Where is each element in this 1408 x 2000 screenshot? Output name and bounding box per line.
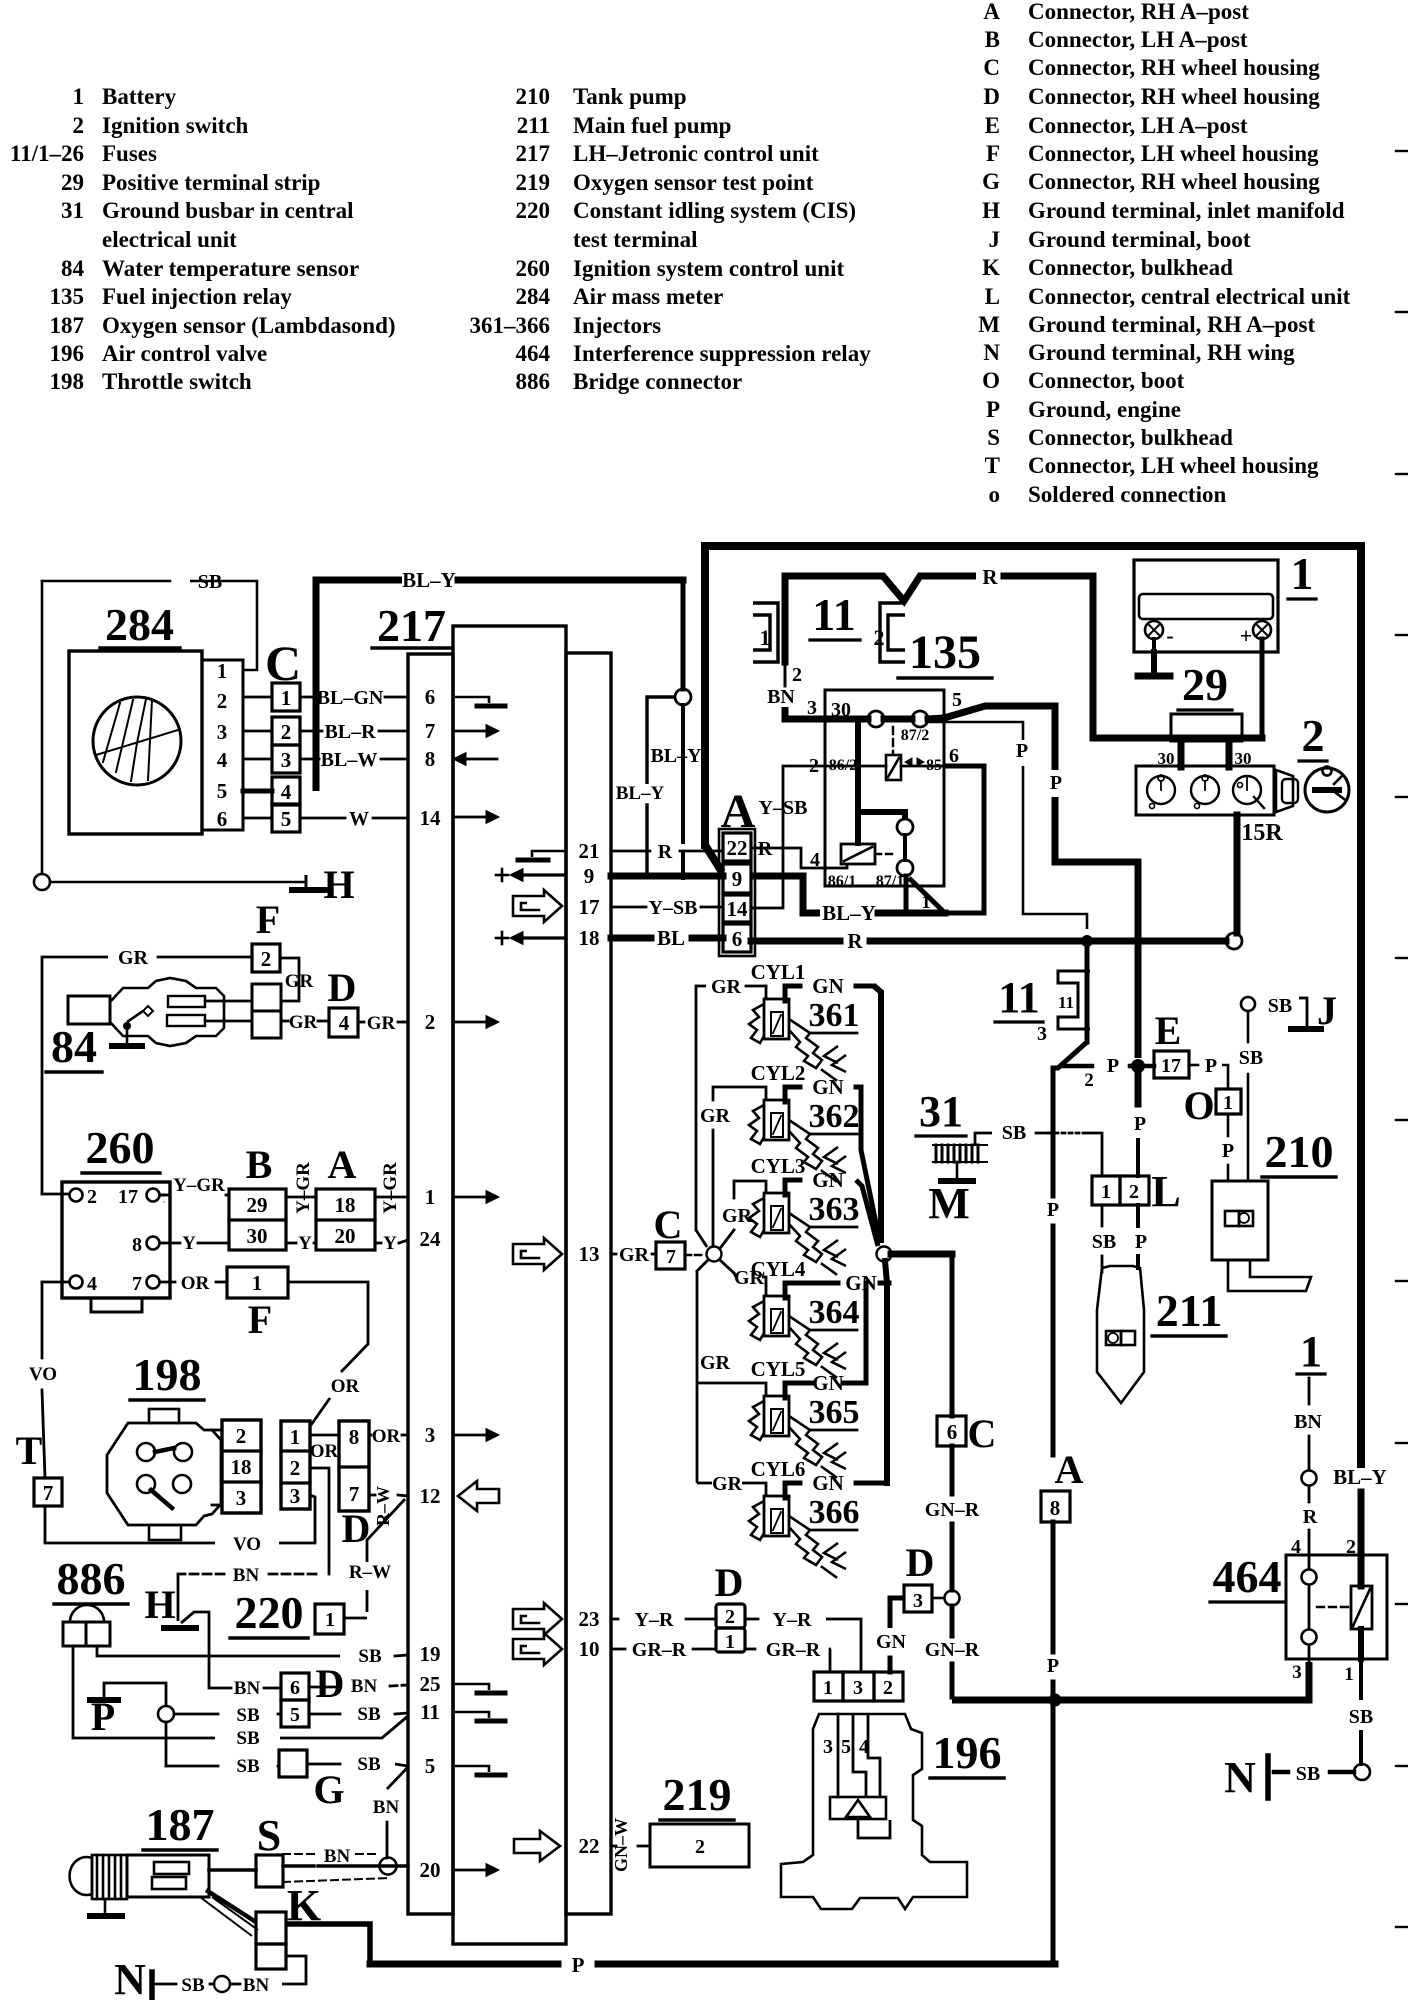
- svg-text:GR: GR: [285, 971, 314, 992]
- ground N bar right: [1265, 1756, 1271, 1798]
- svg-text:18: 18: [231, 1455, 252, 1479]
- svg-text:14: 14: [420, 806, 442, 830]
- svg-text:1: 1: [325, 1609, 335, 1631]
- svg-text:SB: SB: [1239, 1047, 1263, 1069]
- svg-text:R–W: R–W: [349, 1562, 391, 1583]
- svg-text:SB: SB: [198, 571, 222, 593]
- relay 85 wire to pin 6: [901, 765, 944, 768]
- svg-text:7: 7: [425, 719, 436, 743]
- svg-text:GN: GN: [812, 1471, 844, 1495]
- svg-text:Connector, LH wheel housing: Connector, LH wheel housing: [1028, 141, 1319, 166]
- temp sensor element 2: [167, 1015, 205, 1026]
- P wire from relay 87/2 to fuse 11-3: [928, 722, 1023, 740]
- svg-text:284: 284: [516, 284, 551, 309]
- 886 dome arc: [70, 1605, 104, 1622]
- svg-text:Y: Y: [182, 1233, 196, 1254]
- wire 284 pin3 to C2: [243, 730, 272, 733]
- svg-text:Fuel injection relay: Fuel injection relay: [102, 284, 292, 309]
- GN-R thick to 464 pin3: [952, 1662, 1309, 1700]
- GR wire from left rail to F2: [42, 956, 108, 959]
- injector 365 plug: [764, 1396, 789, 1436]
- P wire fuse output to E17: [1062, 1064, 1092, 1069]
- svg-text:F: F: [248, 1297, 272, 1342]
- svg-text:Connector, RH A–post: Connector, RH A–post: [1028, 0, 1249, 24]
- svg-text:E: E: [985, 113, 1000, 138]
- injector 362 body: [749, 1105, 764, 1144]
- wire 284 pin6 to C5: [243, 817, 272, 820]
- throttle switch octagon body: [107, 1423, 221, 1525]
- svg-text:P: P: [1135, 1231, 1147, 1253]
- 219 box: [650, 1824, 749, 1867]
- GR wire cyl5 bracket: [697, 1383, 766, 1396]
- svg-text:284: 284: [105, 599, 174, 650]
- svg-text:SB: SB: [357, 1754, 381, 1775]
- svg-text:P: P: [91, 1694, 115, 1739]
- connector A box 14: [723, 895, 751, 922]
- connector G box: [279, 1750, 307, 1777]
- svg-text:219: 219: [516, 170, 551, 195]
- svg-text:S: S: [257, 1811, 281, 1860]
- svg-text:29: 29: [247, 1193, 268, 1217]
- svg-text:P: P: [1047, 1199, 1059, 1221]
- svg-text:9: 9: [732, 867, 743, 891]
- svg-text:R: R: [1303, 1506, 1318, 1528]
- svg-text:17: 17: [118, 1186, 138, 1208]
- svg-text:22: 22: [579, 1834, 600, 1858]
- svg-text:13: 13: [579, 1242, 600, 1266]
- wire sensor to S box: [209, 1868, 256, 1872]
- svg-text:196: 196: [50, 341, 85, 366]
- svg-text:6: 6: [949, 745, 959, 767]
- svg-text:1: 1: [725, 1631, 735, 1653]
- svg-text:Connector, LH wheel housing: Connector, LH wheel housing: [1028, 453, 1319, 478]
- connector F box 1: [227, 1267, 288, 1298]
- temp sensor internal ground wire: [127, 1011, 143, 1022]
- svg-text:H: H: [323, 862, 354, 907]
- svg-text:GN: GN: [812, 1371, 844, 1395]
- wire C1 to 217 pin6 BL-GN: [300, 696, 315, 699]
- relay coil to 86/1 pin 4: [826, 864, 847, 868]
- wire B29 to A18: [286, 1196, 316, 1199]
- throttle bottom tab: [149, 1525, 181, 1540]
- OR wire F1 right and down: [288, 1282, 368, 1372]
- BN dashed wire D6 to 217 pin25: [309, 1686, 336, 1689]
- svg-text:test terminal: test terminal: [573, 227, 698, 252]
- connector A box 6: [723, 924, 751, 952]
- svg-text:Ground terminal, RH wing: Ground terminal, RH wing: [1028, 340, 1295, 365]
- SB wire from 284 pin1 up and left: [190, 581, 257, 670]
- relay 30 contact circle 1: [868, 711, 884, 727]
- svg-text:Y–SB: Y–SB: [759, 797, 808, 819]
- SB wire left vertical to soldered connection: [41, 581, 44, 874]
- svg-text:GN: GN: [812, 974, 844, 998]
- tank pump 210 box: [1212, 1181, 1268, 1260]
- svg-text:2: 2: [883, 1677, 893, 1699]
- svg-text:Interference suppression relay: Interference suppression relay: [573, 341, 871, 366]
- svg-text:CYL1: CYL1: [751, 960, 806, 984]
- svg-text:Ground, engine: Ground, engine: [1028, 397, 1181, 422]
- soldered connection circle at D3: [945, 1591, 960, 1606]
- svg-text:Oxygen sensor (Lambdasond): Oxygen sensor (Lambdasond): [102, 313, 396, 338]
- GR rail lower to cyl5 cyl6: [696, 1271, 699, 1483]
- 196 connector boxes 1/3/2: [814, 1672, 843, 1701]
- relay 30 rail exit to pin 5: [928, 718, 944, 719]
- svg-text:SB: SB: [1092, 1231, 1116, 1253]
- relay switch link: [903, 835, 907, 860]
- VO wire 260 pin4 down: [42, 1281, 69, 1284]
- 217 pin 23 internal hook arrow: [513, 1603, 562, 1635]
- OR wire col2-1 to D8: [310, 1434, 339, 1437]
- svg-text:3: 3: [1037, 1023, 1047, 1045]
- GR wire cyl1 bracket: [696, 985, 706, 988]
- injector 361 plug: [764, 999, 789, 1039]
- injector 365 body: [749, 1401, 764, 1440]
- svg-text:OR: OR: [181, 1273, 210, 1294]
- ignition switch box: [1136, 766, 1274, 815]
- svg-text:BL–Y: BL–Y: [822, 901, 876, 925]
- svg-text:7: 7: [666, 1246, 676, 1268]
- GN-R vertical below D3: [950, 1606, 955, 1636]
- wire soldered connection to ground H: [50, 881, 306, 884]
- connector F box 2: [252, 944, 280, 972]
- BL-Y below junction down: [681, 705, 685, 842]
- svg-text:1: 1: [425, 1185, 436, 1209]
- svg-text:2: 2: [290, 1456, 301, 1480]
- GN rail 4 up to X: [885, 1261, 887, 1283]
- relay dashed coil-switch link: [875, 853, 897, 855]
- wire D8 to 217 pin3 OR: [369, 1434, 371, 1437]
- H ground drop wire: [177, 1574, 180, 1621]
- svg-text:4: 4: [281, 780, 292, 804]
- ground J soldered circle: [1241, 997, 1255, 1011]
- svg-text:P: P: [1134, 1113, 1146, 1135]
- GN-R vertical below C6: [950, 1446, 955, 1494]
- connector C box 3: [272, 745, 300, 773]
- svg-text:G: G: [313, 1767, 344, 1812]
- SB wire P junction down to G box: [165, 1722, 168, 1766]
- svg-text:O: O: [1183, 1083, 1214, 1128]
- 196 valve box with triangle: [830, 1797, 886, 1819]
- svg-text:Throttle switch: Throttle switch: [102, 369, 252, 394]
- svg-text:1: 1: [1101, 1181, 1111, 1203]
- svg-text:6: 6: [425, 685, 436, 709]
- svg-text:135: 135: [50, 284, 85, 309]
- 217 pin 10 internal hook arrow: [513, 1633, 562, 1665]
- diagonal wires sensor to K: [206, 1890, 256, 1922]
- thick R wire from fuse down to 29 and battery: [1090, 576, 1097, 738]
- svg-text:SB: SB: [236, 1728, 260, 1749]
- svg-text:3: 3: [217, 720, 228, 744]
- svg-text:H: H: [144, 1582, 175, 1627]
- junction blob fuse feed on R wire: [1081, 935, 1093, 947]
- svg-text:1: 1: [1291, 548, 1314, 599]
- svg-text:5: 5: [425, 1754, 436, 1778]
- svg-text:8: 8: [1050, 1496, 1061, 1520]
- svg-text:8: 8: [132, 1234, 142, 1256]
- thick R wire A6 to ignition switch junction: [751, 938, 840, 945]
- ignition connector plug: [1276, 770, 1293, 812]
- svg-text:187: 187: [146, 1799, 215, 1850]
- svg-text:Connector, RH wheel housing: Connector, RH wheel housing: [1028, 169, 1320, 194]
- 217 pin 8 internal arrow: [466, 758, 497, 761]
- GN-R thick wire from X junction right: [891, 1251, 952, 1258]
- legend column 3: [978, 0, 1350, 507]
- svg-text:N: N: [114, 1955, 146, 2000]
- connector C box 2: [272, 717, 300, 745]
- 260 bottom tab: [91, 1298, 142, 1312]
- svg-text:P: P: [572, 1953, 585, 1977]
- svg-text:Ignition system control unit: Ignition system control unit: [573, 256, 844, 281]
- fuse 11 output wire down: [782, 576, 789, 662]
- svg-text:4: 4: [217, 748, 228, 772]
- svg-text:D: D: [328, 965, 357, 1010]
- battery 1 box: [1134, 560, 1278, 652]
- wire C2 to 217 pin7 BL-R: [300, 730, 322, 733]
- svg-text:BL–Y: BL–Y: [650, 745, 702, 767]
- relay switch blade: [904, 876, 909, 911]
- svg-text:1: 1: [1223, 1092, 1233, 1114]
- wire A14 right to relay 86/2: [751, 766, 826, 908]
- main fuel pump 211 body: [1097, 1266, 1144, 1403]
- svg-text:J: J: [989, 227, 1001, 252]
- svg-text:L: L: [1151, 1167, 1180, 1216]
- svg-text:G: G: [982, 169, 1000, 194]
- SB wire to ground N: [1330, 1770, 1354, 1775]
- 217 pin 12 internal big arrow: [458, 1481, 499, 1511]
- battery inner cell: [1139, 594, 1273, 619]
- svg-text:361–366: 361–366: [470, 313, 551, 338]
- svg-text:Y–SB: Y–SB: [649, 897, 698, 919]
- svg-text:P: P: [1222, 1140, 1234, 1162]
- Y wire A20 to 217 pin24: [375, 1242, 381, 1245]
- 260 box: [62, 1182, 170, 1298]
- wire throttle to column: [212, 1429, 222, 1432]
- soldered connection circle at H wire: [34, 874, 50, 890]
- svg-text:3: 3: [425, 1423, 436, 1447]
- svg-text:Bridge connector: Bridge connector: [573, 369, 742, 394]
- svg-text:2: 2: [236, 1424, 247, 1448]
- bottom rail P thick: [370, 1961, 558, 1968]
- svg-text:BL–Y: BL–Y: [402, 568, 456, 592]
- svg-text:Y–R: Y–R: [773, 1609, 812, 1631]
- svg-text:LH–Jetronic control unit: LH–Jetronic control unit: [573, 141, 819, 166]
- air mass meter 284 box: [69, 651, 202, 834]
- svg-text:Positive terminal strip: Positive terminal strip: [102, 170, 320, 195]
- relay 86/2 row wire: [826, 765, 886, 768]
- 220 test box 1: [315, 1604, 344, 1634]
- svg-text:C: C: [654, 1202, 683, 1247]
- connector T box 7: [34, 1478, 62, 1506]
- connector A box 8: [1041, 1491, 1070, 1522]
- fuse 11-3 clip: [1058, 971, 1090, 1029]
- GN rail 1 thick down to X: [874, 986, 881, 1243]
- svg-text:3: 3: [236, 1486, 247, 1510]
- svg-text:2: 2: [792, 664, 802, 686]
- BL-Y junction circle: [675, 689, 691, 705]
- injector 363 body: [749, 1198, 764, 1237]
- legend column 2: [470, 84, 872, 394]
- 196 internal lines: [837, 1714, 840, 1797]
- svg-text:CYL5: CYL5: [751, 1357, 806, 1381]
- GN wire cyl3: [785, 1178, 800, 1183]
- svg-text:GN: GN: [812, 1168, 844, 1192]
- wire 284 pin4 to C3: [243, 758, 272, 761]
- svg-text:1: 1: [73, 84, 85, 109]
- svg-text:86/1: 86/1: [828, 873, 856, 890]
- svg-text:886: 886: [57, 1553, 126, 1604]
- BL-Y to relay 87/1 blade: [878, 910, 945, 917]
- BN wire into relay 30: [785, 707, 825, 719]
- BL-Y top frame horizontal: [705, 542, 1361, 550]
- svg-text:Air mass meter: Air mass meter: [573, 284, 723, 309]
- registration marks right edge: [1396, 150, 1408, 152]
- svg-text:R: R: [982, 565, 998, 589]
- ignition switch dial 3: [1233, 776, 1261, 804]
- thick BL wire 217 pin18 to A6: [611, 935, 651, 942]
- svg-text:M: M: [978, 312, 1000, 337]
- SB wire J down to tank pump: [1247, 1011, 1250, 1042]
- svg-text:BN: BN: [373, 1797, 400, 1818]
- svg-text:Ground terminal, inlet manifol: Ground terminal, inlet manifold: [1028, 198, 1345, 223]
- P wire O1 down to tank pump: [1227, 1114, 1230, 1136]
- throttle wiper diagonal: [151, 1490, 172, 1508]
- svg-text:220: 220: [235, 1587, 304, 1638]
- E17 junction blob: [1131, 1059, 1145, 1073]
- soldered connection circle BN/R: [1302, 1471, 1317, 1486]
- 886 box left: [63, 1622, 86, 1646]
- svg-text:5: 5: [217, 779, 228, 803]
- ignition switch dial 2: [1191, 776, 1219, 804]
- wire pin17 to B continue: [226, 1194, 229, 1197]
- svg-text:J: J: [1317, 988, 1337, 1033]
- svg-text:2: 2: [809, 755, 819, 777]
- svg-text:P: P: [1205, 1055, 1217, 1077]
- connector E box 17: [1154, 1051, 1189, 1078]
- fuse 11-3 wire through: [1085, 966, 1090, 1042]
- svg-text:Fuses: Fuses: [102, 141, 157, 166]
- sensor 84 connector boxes: [252, 984, 281, 1011]
- svg-text:D: D: [316, 1661, 345, 1706]
- svg-text:W: W: [349, 808, 369, 830]
- svg-text:BN: BN: [351, 1676, 378, 1697]
- svg-text:25: 25: [420, 1672, 441, 1696]
- relay 464 coil: [1351, 1586, 1372, 1629]
- svg-text:GR: GR: [118, 947, 149, 969]
- svg-text:17: 17: [579, 895, 600, 919]
- wire T7 to VO run: [45, 1506, 215, 1543]
- throttle contact circles bottom: [137, 1475, 155, 1493]
- soldered connection circle at N wing: [1354, 1764, 1370, 1780]
- svg-text:C: C: [983, 55, 1000, 80]
- svg-text:24: 24: [420, 1227, 442, 1251]
- svg-text:11/1–26: 11/1–26: [10, 141, 84, 166]
- connector C box 6: [937, 1416, 966, 1446]
- GR wire cyl3 bracket: [734, 1181, 766, 1193]
- svg-text:7: 7: [43, 1481, 54, 1505]
- air control valve 196 body: [781, 1714, 967, 1909]
- svg-text:T: T: [16, 1428, 43, 1473]
- svg-text:SB: SB: [1296, 1763, 1320, 1785]
- svg-text:Air control valve: Air control valve: [102, 341, 267, 366]
- svg-text:30: 30: [247, 1224, 268, 1248]
- 217 pin 13 internal hook arrow: [513, 1238, 562, 1270]
- svg-text:Y–GR: Y–GR: [173, 1175, 225, 1196]
- ground J symbol: [1299, 998, 1307, 1026]
- wire D7 to 217 pin12: [369, 1494, 375, 1497]
- svg-text:18: 18: [335, 1193, 356, 1217]
- 217 pin 9 internal arrow with plus: [496, 874, 508, 877]
- dashed wire C7 to X junction: [685, 1254, 705, 1257]
- svg-text:219: 219: [663, 1769, 732, 1820]
- GN rail 5 up: [864, 1283, 869, 1383]
- 217 pin 22 internal outline arrow: [514, 1831, 560, 1861]
- BL-Y thick wire to junction: [458, 577, 683, 584]
- svg-text:5: 5: [841, 1736, 851, 1758]
- svg-text:GR: GR: [734, 1267, 765, 1289]
- svg-text:23: 23: [579, 1607, 600, 1631]
- injector 366 plug: [764, 1496, 789, 1536]
- svg-text:Battery: Battery: [102, 84, 177, 109]
- P junction circle: [158, 1706, 174, 1722]
- svg-text:Soldered connection: Soldered connection: [1028, 482, 1226, 507]
- SB wire busbar to L1: [975, 1133, 992, 1145]
- junction dot P rail at GN-R crossing: [1049, 1694, 1062, 1707]
- SB wire L1 to main pump: [1101, 1205, 1104, 1226]
- GN X junction circle: [877, 1247, 892, 1262]
- svg-text:D: D: [983, 84, 1000, 109]
- ignition switch output wire to R junction: [1234, 815, 1241, 933]
- connector C box 5: [272, 804, 300, 832]
- svg-text:Constant idling system (CIS): Constant idling system (CIS): [573, 198, 856, 223]
- svg-text:BL–GN: BL–GN: [317, 687, 384, 709]
- svg-text:9: 9: [584, 864, 595, 888]
- oxygen sensor elements: [154, 1862, 189, 1874]
- svg-text:Injectors: Injectors: [573, 313, 661, 338]
- svg-text:T: T: [985, 453, 1000, 478]
- svg-text:6: 6: [732, 927, 743, 951]
- 217 pin 1 internal arrow: [455, 1196, 489, 1199]
- wire 217 pin17 Y-SB to A14: [611, 906, 646, 909]
- svg-text:VO: VO: [233, 1534, 261, 1555]
- svg-text:8: 8: [349, 1425, 360, 1449]
- throttle second column 1/2/3: [281, 1421, 310, 1509]
- main pump connector detail: [1106, 1331, 1121, 1345]
- svg-text:SB: SB: [181, 1975, 205, 1996]
- svg-text:B: B: [985, 27, 1000, 52]
- relay dashed link to 85 resistor: [892, 727, 894, 753]
- GR X junction arms: [697, 1261, 707, 1271]
- connector S box: [256, 1855, 283, 1887]
- svg-text:7: 7: [349, 1482, 360, 1506]
- svg-text:Ground terminal, RH A–post: Ground terminal, RH A–post: [1028, 312, 1315, 337]
- svg-text:BL–W: BL–W: [321, 749, 378, 771]
- injector 364 plug: [764, 1296, 789, 1336]
- svg-text:18: 18: [579, 926, 600, 950]
- svg-text:2: 2: [281, 720, 292, 744]
- connector D boxes 2/1: [716, 1604, 745, 1628]
- GR wire 217 pin13 to C7: [611, 1253, 616, 1256]
- OR wire 260 pin7 to F1: [160, 1281, 175, 1284]
- 217 pin 21 internal terminal symbol: [532, 851, 566, 857]
- wire C3 to 217 pin8 BL-W: [300, 758, 319, 761]
- svg-text:R–W: R–W: [373, 1486, 393, 1526]
- relay switch circle 87/1: [897, 860, 913, 876]
- svg-text:OR: OR: [372, 1426, 401, 1447]
- GN wire cyl5: [785, 1381, 812, 1386]
- svg-text:K: K: [982, 255, 1000, 280]
- ground terminal H symbol: [305, 875, 308, 888]
- svg-text:P: P: [1047, 1655, 1059, 1677]
